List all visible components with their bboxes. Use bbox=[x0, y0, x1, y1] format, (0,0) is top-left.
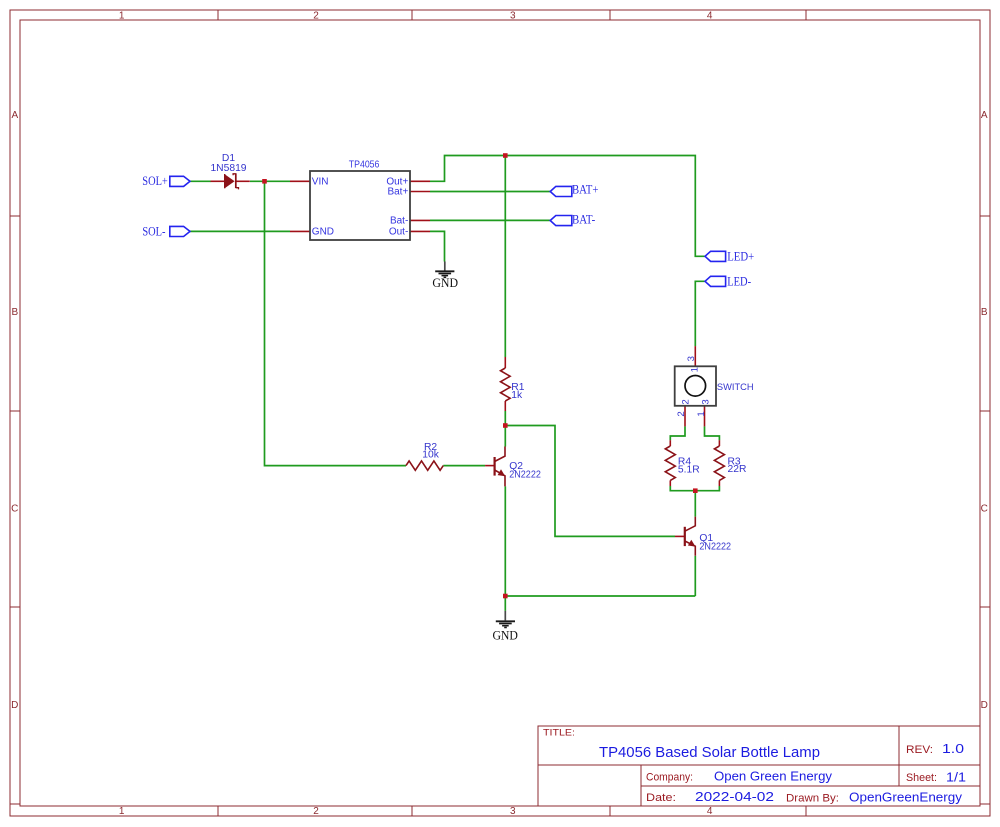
svg-text:2: 2 bbox=[680, 399, 691, 404]
wire Q1 emitter to bottom rail bbox=[694, 556, 696, 596]
pin name 3 (bottom-right inside) bbox=[701, 399, 712, 404]
label R4 bbox=[678, 456, 691, 467]
pin R4 bottom bbox=[669, 480, 671, 486]
resistor R2 bbox=[406, 461, 443, 470]
ground GND2 (bottom) bbox=[496, 611, 515, 628]
label GND (GND2) bbox=[492, 627, 518, 642]
svg-text:Drawn By:: Drawn By: bbox=[786, 793, 839, 805]
pin U1 VIN bbox=[290, 180, 310, 182]
pin name 1 (top inside) bbox=[690, 367, 701, 372]
label R1 bbox=[511, 382, 524, 393]
svg-text:B: B bbox=[11, 307, 18, 318]
net label LED- bbox=[727, 275, 751, 289]
resistor R3 bbox=[714, 446, 724, 480]
label GND (GND1) bbox=[432, 275, 458, 290]
wire Q2 emitter down bbox=[504, 486, 506, 596]
svg-text:2: 2 bbox=[313, 806, 319, 817]
Drawn By label bbox=[786, 793, 839, 805]
label 1N5819 bbox=[210, 163, 246, 174]
REV value 1.0 bbox=[942, 742, 964, 756]
connector SOL+ bbox=[170, 176, 190, 186]
svg-text:1: 1 bbox=[119, 11, 125, 22]
svg-text:3: 3 bbox=[510, 806, 516, 817]
label Q2 bbox=[509, 461, 523, 472]
pin R3 bottom bbox=[718, 480, 720, 486]
title block label TITLE: bbox=[543, 728, 575, 739]
svg-text:A: A bbox=[11, 110, 18, 121]
svg-text:BAT+: BAT+ bbox=[572, 182, 598, 196]
resistor R4 bbox=[665, 446, 675, 480]
svg-text:1N5819: 1N5819 bbox=[210, 163, 246, 174]
svg-text:SWITCH: SWITCH bbox=[717, 382, 754, 393]
pin SW1 bottom left bbox=[684, 406, 686, 427]
net label BAT- bbox=[572, 212, 595, 226]
svg-text:C: C bbox=[11, 504, 18, 515]
Company label bbox=[646, 772, 693, 784]
svg-text:D: D bbox=[11, 700, 18, 711]
junction at Q2 collector node bbox=[503, 423, 508, 428]
pin Q1 base bbox=[675, 535, 684, 537]
pin number 1 (bottom-right outside) bbox=[696, 411, 707, 416]
svg-text:4: 4 bbox=[707, 11, 713, 22]
Company value bbox=[714, 770, 833, 784]
svg-text:10k: 10k bbox=[422, 450, 439, 461]
Sheet label bbox=[906, 772, 937, 784]
pin R3 top bbox=[718, 440, 720, 446]
pin name Out- bbox=[389, 227, 408, 238]
svg-text:TP4056: TP4056 bbox=[349, 159, 380, 170]
svg-text:2022-04-02: 2022-04-02 bbox=[695, 790, 774, 804]
pin name 2 (bottom-left inside) bbox=[680, 399, 691, 404]
label 5.1R bbox=[678, 464, 700, 475]
connector LED- bbox=[705, 276, 726, 286]
svg-text:Out-: Out- bbox=[389, 227, 408, 238]
connector BAT+ bbox=[550, 186, 572, 196]
wire junction A down and right to R2 bbox=[265, 181, 407, 465]
svg-text:C: C bbox=[981, 504, 988, 515]
connector BAT- bbox=[550, 216, 572, 226]
label Q1 bbox=[699, 533, 713, 544]
pin U1 GND bbox=[290, 230, 310, 232]
net label SOL- bbox=[142, 224, 165, 238]
svg-text:Open Green Energy: Open Green Energy bbox=[714, 770, 833, 784]
wire Out- to ground bbox=[430, 231, 445, 261]
pin number 2 (bottom-left outside) bbox=[676, 411, 687, 416]
svg-text:VIN: VIN bbox=[312, 177, 329, 188]
IC U1 TP4056 body bbox=[310, 171, 410, 240]
svg-text:1: 1 bbox=[696, 411, 707, 416]
pin R1 top bbox=[504, 357, 506, 368]
switch SW1 body bbox=[675, 366, 716, 406]
diode D1 1N5819 bbox=[225, 173, 239, 189]
svg-text:Bat-: Bat- bbox=[390, 216, 408, 227]
wire R1 to collector junction bbox=[504, 411, 506, 426]
svg-text:GND: GND bbox=[312, 227, 334, 238]
wire R3R4 junction to Q1 collector bbox=[694, 491, 696, 517]
wire Out+ up across top to LED+ bbox=[430, 156, 705, 257]
pin name VIN bbox=[312, 177, 329, 188]
transistor Q1 2N2222 bbox=[685, 517, 696, 556]
svg-text:3: 3 bbox=[686, 356, 697, 361]
pin U1 Out+ bbox=[410, 180, 430, 182]
label 10k bbox=[422, 450, 439, 461]
title text bbox=[599, 745, 820, 761]
svg-text:GND: GND bbox=[432, 275, 458, 290]
label 1k bbox=[511, 390, 523, 401]
label R3 bbox=[728, 456, 741, 467]
label 2N2222 (Q2) bbox=[509, 469, 541, 480]
pin number 3 (top outside) bbox=[686, 356, 697, 361]
connector LED+ bbox=[705, 251, 726, 261]
wire R4 R3 bottom rail bbox=[670, 486, 719, 491]
wire SOL- to IC GND pin bbox=[190, 230, 290, 232]
junction at top rail bbox=[503, 153, 508, 158]
wire Bat+ to BAT+ bbox=[430, 191, 550, 193]
label SWITCH bbox=[717, 382, 754, 393]
svg-text:1: 1 bbox=[119, 806, 125, 817]
transistor Q2 2N2222 bbox=[495, 447, 506, 487]
svg-text:1k: 1k bbox=[511, 390, 523, 401]
svg-text:22R: 22R bbox=[728, 464, 747, 475]
pin SW1 top bbox=[694, 346, 696, 366]
svg-text:REV:: REV: bbox=[906, 744, 933, 756]
ground GND1 (near U1) bbox=[435, 262, 454, 278]
Date value bbox=[695, 790, 774, 804]
svg-text:Bat+: Bat+ bbox=[387, 187, 408, 198]
wire D1 cathode to VIN pin (net VCC) bbox=[250, 180, 290, 182]
pin name Out+ bbox=[386, 177, 408, 188]
junction at D1/VIN node bbox=[262, 179, 267, 184]
pin U1 Out- bbox=[410, 230, 430, 232]
Sheet value 1/1 bbox=[946, 771, 966, 785]
pin D1 cathode bbox=[236, 180, 250, 182]
svg-text:TITLE:: TITLE: bbox=[543, 728, 575, 739]
wire switch pin 1 to R3 bbox=[705, 426, 720, 440]
svg-text:Sheet:: Sheet: bbox=[906, 772, 937, 784]
svg-text:GND: GND bbox=[492, 627, 518, 642]
Date label bbox=[646, 792, 676, 804]
pin R1 bottom bbox=[504, 401, 506, 411]
label R2 bbox=[424, 442, 437, 453]
label 22R bbox=[728, 464, 747, 475]
svg-text:Company:: Company: bbox=[646, 772, 693, 784]
wire bottom junction to ground bbox=[504, 596, 506, 611]
svg-text:2: 2 bbox=[676, 411, 687, 416]
wire collector junction to Q2 collector bbox=[504, 426, 506, 447]
svg-text:A: A bbox=[981, 110, 988, 121]
svg-text:1: 1 bbox=[690, 367, 701, 372]
label TP4056 bbox=[349, 159, 380, 170]
pin name GND bbox=[312, 227, 334, 238]
wire R2 to Q2 base bbox=[443, 465, 485, 467]
svg-text:1/1: 1/1 bbox=[946, 771, 966, 785]
wire switch pin 2 to R4 bbox=[670, 426, 685, 440]
svg-text:5.1R: 5.1R bbox=[678, 464, 700, 475]
pin name Bat+ bbox=[387, 187, 408, 198]
net label BAT+ bbox=[572, 182, 598, 196]
pin D1 anode bbox=[211, 180, 225, 182]
pin U1 Bat- bbox=[410, 219, 430, 221]
svg-text:Date:: Date: bbox=[646, 792, 676, 804]
svg-text:2N2222: 2N2222 bbox=[699, 542, 731, 553]
svg-text:LED+: LED+ bbox=[727, 250, 754, 264]
pin U1 Bat+ bbox=[410, 191, 430, 193]
resistor R1 bbox=[501, 368, 511, 401]
svg-text:4: 4 bbox=[707, 806, 713, 817]
junction at R3/R4 node bbox=[693, 488, 698, 493]
svg-text:SOL+: SOL+ bbox=[142, 174, 168, 188]
wire LED- to switch pin 3 bbox=[695, 281, 705, 346]
svg-text:TP4056 Based Solar Bottle Lamp: TP4056 Based Solar Bottle Lamp bbox=[599, 745, 820, 761]
pin R4 top bbox=[669, 440, 671, 446]
net label SOL+ bbox=[142, 174, 168, 188]
label 2N2222 (Q1) bbox=[699, 542, 731, 553]
pin name Bat- bbox=[390, 216, 408, 227]
net label LED+ bbox=[727, 250, 754, 264]
pin SW1 bottom right bbox=[704, 406, 706, 427]
connector SOL- bbox=[170, 226, 190, 236]
pin Q2 base bbox=[485, 465, 494, 467]
junction at bottom ground node bbox=[503, 594, 508, 599]
Drawn By value bbox=[849, 791, 963, 805]
svg-text:3: 3 bbox=[510, 11, 516, 22]
svg-text:LED-: LED- bbox=[727, 275, 751, 289]
svg-text:D: D bbox=[981, 700, 988, 711]
label D1 bbox=[222, 153, 235, 164]
svg-text:B: B bbox=[981, 307, 988, 318]
REV label bbox=[906, 744, 933, 756]
wire SOL+ to D1 anode bbox=[190, 180, 211, 182]
wire top junction down to R1 bbox=[504, 156, 506, 358]
wire collector junction to Q1 base bbox=[505, 426, 675, 537]
svg-text:2: 2 bbox=[313, 11, 319, 22]
svg-text:BAT-: BAT- bbox=[572, 212, 595, 226]
svg-text:OpenGreenEnergy: OpenGreenEnergy bbox=[849, 791, 963, 805]
wire bottom rail bbox=[505, 595, 695, 597]
wire Bat- to BAT- bbox=[430, 219, 550, 221]
svg-text:3: 3 bbox=[701, 399, 712, 404]
svg-text:2N2222: 2N2222 bbox=[509, 469, 541, 480]
svg-text:SOL-: SOL- bbox=[142, 224, 165, 238]
title block frame bbox=[538, 726, 980, 806]
svg-text:1.0: 1.0 bbox=[942, 742, 964, 756]
